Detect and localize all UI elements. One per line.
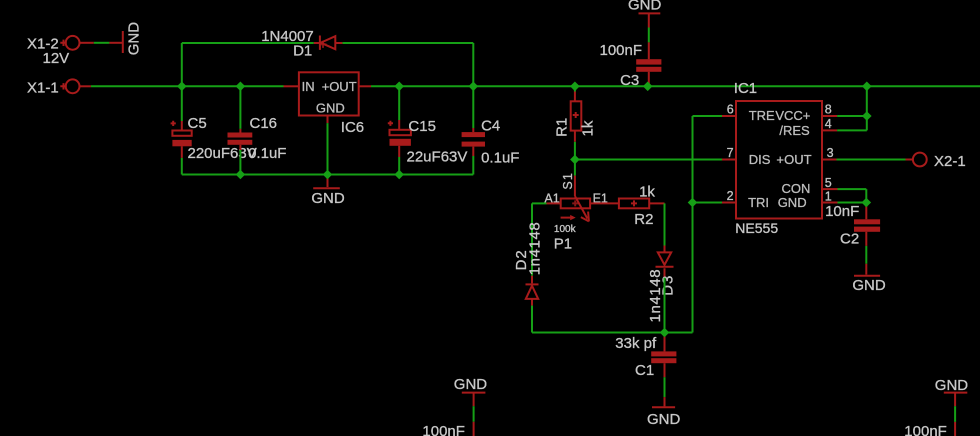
wire TRI vertical net — [692, 116, 694, 333]
svg-text:8: 8 — [825, 103, 832, 117]
capacitor C4 — [462, 117, 520, 166]
svg-text:TRI: TRI — [748, 195, 769, 210]
svg-text:100k: 100k — [554, 224, 577, 235]
svg-text:GND: GND — [628, 0, 662, 13]
svg-text:VCC+: VCC+ — [775, 108, 810, 123]
ground GND6 (bottom middle) — [454, 376, 488, 406]
junction node pin1/pin5/C2 — [862, 198, 872, 208]
svg-text:GND: GND — [126, 22, 143, 56]
svg-text:GND: GND — [316, 100, 345, 115]
svg-text:C16: C16 — [250, 115, 278, 132]
svg-text:DIS: DIS — [749, 152, 771, 167]
wire C16 bottom — [239, 150, 241, 175]
svg-text:OUT: OUT — [784, 152, 812, 167]
svg-text:R2: R2 — [634, 211, 653, 228]
wire IC6 GND to rail — [327, 123, 329, 174]
svg-text:0.1uF: 0.1uF — [481, 149, 519, 166]
svg-text:GND: GND — [647, 411, 681, 428]
op-amp/timer IC1 NE555 — [734, 80, 822, 236]
ground GND3 (above C3) — [628, 0, 662, 28]
capacitor C5 — [171, 115, 257, 162]
svg-text:100nF: 100nF — [600, 42, 643, 59]
svg-text:/RES: /RES — [779, 123, 810, 138]
svg-text:100nF: 100nF — [904, 423, 947, 436]
svg-text:GND: GND — [778, 195, 807, 210]
junction node C16 bottom rail — [236, 170, 246, 180]
junction node IC6 GND rail — [323, 170, 333, 180]
svg-text:TRE: TRE — [749, 108, 775, 123]
wire A1 to D2 corner — [532, 202, 547, 204]
wire IC1 pin3 stub — [822, 159, 837, 161]
wire left vertical — [181, 43, 183, 121]
svg-text:C5: C5 — [188, 115, 207, 132]
wire bottom rail (regulator section) — [182, 174, 474, 176]
svg-text:10nF: 10nF — [825, 203, 859, 220]
capacitor C16 — [228, 86, 287, 162]
svg-text:D1: D1 — [293, 43, 312, 60]
wire D2 bottom — [531, 306, 533, 333]
wire top bypass right segment — [342, 42, 473, 44]
resistor R2 — [619, 183, 656, 228]
wire pin8 to VCC corner — [837, 115, 867, 117]
svg-text:1: 1 — [825, 189, 832, 203]
svg-text:+: + — [776, 152, 784, 167]
wire IC6 OUT pin stub — [359, 85, 371, 87]
svg-text:1n4148: 1n4148 — [647, 269, 664, 323]
svg-text:100nF: 100nF — [422, 423, 465, 436]
wire GND3 to C3 — [648, 28, 650, 43]
svg-text:GND: GND — [935, 377, 969, 394]
wire C1 bottom — [664, 377, 666, 397]
wire IC1 pin1 stub — [822, 202, 838, 204]
wire D3 bottom — [664, 278, 666, 333]
svg-text:1k: 1k — [639, 183, 655, 200]
ground GND2 (below IC6) — [311, 175, 345, 208]
svg-text:33k pf: 33k pf — [615, 335, 657, 352]
wire X1-1 pin stub — [80, 85, 91, 87]
svg-text:S1: S1 — [561, 172, 575, 190]
junction node DIS/R1/wiper — [570, 155, 580, 165]
terminal X1-1 — [27, 79, 80, 96]
resistor R1 — [554, 86, 597, 142]
wire C2 bottom — [865, 246, 867, 264]
wire D3 top — [664, 203, 666, 245]
svg-text:GND: GND — [454, 376, 488, 393]
svg-text:3: 3 — [827, 146, 834, 160]
voltage regulator IC6 — [299, 72, 364, 136]
svg-text:C1: C1 — [635, 362, 654, 379]
svg-text:C3: C3 — [620, 72, 639, 89]
wire C5 bottom — [181, 158, 183, 175]
svg-text:IN: IN — [302, 79, 315, 94]
svg-text:IC6: IC6 — [341, 119, 364, 136]
wire pin4 to corner — [837, 116, 867, 130]
svg-text:4: 4 — [825, 117, 832, 131]
wire R1 bottom to DIS node — [574, 142, 576, 160]
terminal X1-2 — [27, 35, 80, 67]
svg-text:X1-1: X1-1 — [27, 79, 59, 96]
svg-text:OUT: OUT — [329, 79, 357, 94]
wire right vertical — [472, 43, 474, 128]
svg-text:7: 7 — [727, 146, 734, 160]
wire DIS net — [575, 159, 722, 161]
junction node on main rail at left vertical — [177, 82, 187, 92]
svg-text:12V: 12V — [43, 50, 70, 67]
svg-text:NE555: NE555 — [735, 220, 778, 236]
ground GND4 (below C1) — [647, 397, 681, 428]
wire D2 top — [531, 203, 533, 275]
svg-text:C15: C15 — [408, 118, 436, 135]
diode D2 — [513, 222, 543, 306]
wire pin5 to corner — [838, 189, 867, 202]
terminal X2-1 — [913, 153, 966, 170]
junction node C16 top — [236, 82, 246, 92]
wire main +12V rail left segment — [91, 85, 284, 87]
svg-text:GND: GND — [852, 277, 886, 294]
svg-text:1k: 1k — [580, 120, 597, 136]
wire X1-2 pin stub — [80, 42, 94, 44]
wire C15 bottom — [398, 157, 400, 175]
wire IC6 IN pin stub — [284, 85, 299, 87]
svg-text:6: 6 — [727, 102, 734, 116]
junction node C15 bottom rail — [394, 170, 404, 180]
wire THR net (pin6) — [693, 115, 723, 117]
svg-text:2: 2 — [727, 189, 734, 203]
junction node TRI — [688, 198, 698, 208]
wire C4 bottom — [472, 156, 474, 175]
ground GND5 (below C2) — [852, 264, 886, 294]
wire TRI to pin2 — [693, 202, 723, 204]
junction node VCC drop — [862, 82, 872, 92]
diode D1 — [261, 28, 342, 60]
wire top bypass left segment — [182, 42, 314, 44]
wire IC1 pin8 stub — [822, 115, 837, 117]
capacitor (bottom right, cut off) 100nF — [904, 422, 955, 436]
junction node C1 top — [660, 328, 670, 338]
wire IC1 pin2 stub — [722, 202, 736, 204]
svg-text:220uF63V: 220uF63V — [188, 145, 257, 162]
svg-text:1n4148: 1n4148 — [526, 222, 543, 276]
diode D3 — [647, 246, 676, 323]
svg-text:GND: GND — [311, 190, 345, 207]
junction node C15 top — [394, 82, 404, 92]
wire IC1 pin5 stub — [822, 188, 838, 190]
wire IC6 GND pin stub — [327, 116, 329, 124]
svg-text:IC1: IC1 — [734, 80, 757, 97]
svg-text:CON: CON — [782, 181, 811, 196]
svg-text:X2-1: X2-1 — [934, 153, 966, 170]
wire X1-2 to GND — [94, 42, 110, 44]
wire IC1 pin6 stub — [722, 115, 736, 117]
potentiometer P1 — [544, 172, 608, 253]
svg-text:C4: C4 — [481, 117, 500, 134]
svg-text:R1: R1 — [554, 118, 571, 137]
wire OUT net — [837, 159, 906, 161]
svg-text:C2: C2 — [840, 230, 859, 247]
junction node C3 bottom — [643, 82, 653, 92]
wire VCC drop — [866, 86, 868, 116]
wire DIS node to wiper — [574, 160, 576, 176]
wire bottom middle cap — [473, 406, 475, 422]
capacitor C15 — [388, 86, 468, 165]
wire pin1 to C2 node — [838, 202, 867, 204]
wire bottom rail (timing section) — [532, 332, 693, 334]
junction node pin8/pin4 — [862, 111, 872, 121]
wire IC1 pin7 stub — [722, 159, 736, 161]
capacitor (bottom middle, cut off) 100nF — [422, 422, 473, 436]
wire R2 right stub — [649, 202, 664, 204]
ground GND1 (rotated, at X1-2) — [109, 22, 142, 56]
junction node R1 top — [570, 82, 580, 92]
svg-text:0.1uF: 0.1uF — [248, 145, 286, 162]
svg-text:22uF63V: 22uF63V — [407, 149, 468, 166]
wire bottom right cap — [954, 406, 956, 422]
svg-text:5: 5 — [825, 176, 832, 190]
capacitor C3 — [600, 42, 662, 89]
svg-text:P1: P1 — [554, 235, 572, 252]
junction node C4 top — [469, 82, 479, 92]
wire main VCC rail right segment — [371, 85, 980, 87]
wire IC1 pin4 stub — [822, 129, 837, 131]
wire P1 A1 stub — [547, 202, 561, 204]
wire X2-1 pin stub — [906, 159, 914, 161]
capacitor C1 — [615, 333, 676, 379]
ground GND7 (bottom right) — [935, 377, 969, 406]
wire P1 E1 stub to R2 — [590, 202, 619, 204]
capacitor C2 — [825, 203, 880, 248]
